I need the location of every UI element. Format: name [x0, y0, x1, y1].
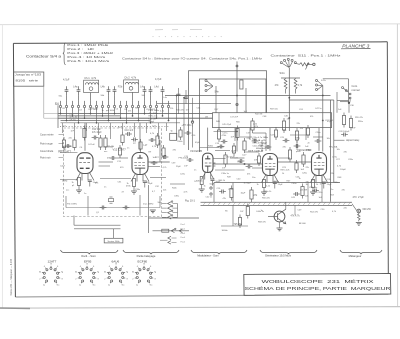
junction S4 drop 9: [108, 120, 109, 121]
capacitor C64: [184, 96, 188, 98]
terminal mod 1: [210, 187, 212, 189]
wire col extra a: [176, 114, 178, 140]
wire S4 drop 2: [66, 112, 68, 121]
resistor R76: [118, 148, 121, 155]
wire V15 column: [288, 113, 290, 131]
svg-text:R47a: R47a: [274, 181, 280, 183]
resistor R21: [83, 129, 86, 138]
bus wire 5: [61, 122, 181, 124]
svg-text:R59 10k: R59 10k: [270, 109, 279, 111]
svg-text:C28a: C28a: [348, 159, 354, 161]
resistor R51 47k: [284, 79, 287, 94]
junction S4 drop 2: [66, 120, 67, 121]
page right edge: [396, 24, 398, 307]
wire top vertical c: [215, 86, 217, 113]
capacitor C52: [293, 193, 296, 195]
svg-text:C27a: C27a: [332, 157, 338, 159]
wire mid horizontal a: [214, 131, 238, 133]
svg-text:R63a 1k: R63a 1k: [264, 191, 273, 193]
ground: [261, 191, 267, 193]
wire right inner down: [336, 92, 338, 113]
wire column drop: [62, 123, 64, 133]
svg-text:3k: 3k: [104, 271, 106, 273]
svg-text:Pos.3: Pos.3: [181, 233, 186, 235]
wire right corner down: [348, 79, 350, 104]
right vertical wire 1: [330, 100, 332, 202]
svg-text:Ch.1 4,7k: Ch.1 4,7k: [84, 76, 97, 80]
svg-text:R55a: R55a: [358, 121, 364, 123]
svg-text:Modulateur - Som: Modulateur - Som: [197, 254, 219, 258]
socket EF95 pins: [78, 266, 96, 283]
capacitor C10: [125, 133, 128, 135]
svg-text:Ch.2 4,7k: Ch.2 4,7k: [124, 75, 137, 79]
wire cap to contact: [114, 95, 116, 101]
wire loop drop a: [249, 128, 251, 140]
svg-text:600 2W: 600 2W: [363, 208, 372, 211]
S4 contact 12: [125, 105, 127, 107]
svg-text:EF95: EF95: [84, 259, 92, 263]
svg-text:patN: patN: [296, 150, 301, 153]
wire S4 drop 10: [114, 112, 116, 114]
svg-text:Pos.2: Pos.2: [181, 228, 186, 230]
wire S4 drop 18: [162, 112, 164, 116]
wire gen e: [294, 205, 296, 215]
revision box: [13, 72, 43, 86]
rotary switch S11: [280, 62, 282, 64]
wire S4 drop 14: [138, 112, 140, 121]
junction cont: [348, 102, 350, 104]
title box: [244, 274, 391, 296]
junction S4 drop 7: [96, 122, 97, 123]
capacitor C53: [312, 190, 315, 192]
svg-text:pot 100k: pot 100k: [106, 109, 115, 112]
svg-text:Cont.: Cont.: [352, 84, 358, 88]
coil Ch1: [85, 83, 98, 85]
wire column drop: [98, 123, 100, 135]
S4 contact 9: [107, 105, 109, 107]
svg-text:50µF: 50µF: [210, 184, 216, 186]
svg-text:Coax blindé: Coax blindé: [40, 150, 54, 153]
resistor R66: [358, 213, 361, 222]
secteur box: [104, 238, 123, 243]
bus dotted row: [60, 126, 170, 128]
svg-text:C47 1n: C47 1n: [315, 108, 323, 110]
vertical drop c: [307, 183, 309, 203]
capacitor C5: [114, 86, 116, 89]
wire S4 drop 6: [90, 112, 92, 114]
resistor R82: [295, 163, 298, 170]
wire left inner: [65, 196, 67, 208]
svg-text:R30 22k: R30 22k: [176, 110, 185, 112]
wire to secteur: [113, 229, 115, 239]
socket 6AU6 pin labels: [104, 264, 128, 287]
S4 contact 17: [155, 105, 157, 107]
cont-normal contacts: [349, 93, 351, 95]
brace oscillateur: [61, 250, 119, 254]
capacitor C61: [265, 146, 268, 148]
capacitor C55: [252, 140, 255, 142]
svg-text:BF 600: BF 600: [299, 223, 307, 225]
wire column drop: [166, 123, 168, 131]
junction J9: [322, 95, 323, 96]
svg-text:2: 2: [39, 279, 40, 281]
svg-text:normal: normal: [352, 88, 360, 92]
capacitor C7: [150, 86, 152, 89]
wire riser 176: [176, 96, 178, 114]
S4 contact 6: [89, 105, 91, 107]
svg-text:3k: 3k: [39, 271, 41, 273]
row low contacts: [168, 236, 171, 239]
resistor R31: [217, 130, 220, 139]
S4 contact 11: [119, 105, 121, 107]
svg-text:C52a: C52a: [318, 192, 324, 194]
resistor R35: [251, 121, 254, 130]
wire vert 219: [218, 113, 220, 130]
svg-text:C53 10n: C53 10n: [309, 187, 318, 189]
tube V16 envelope: [312, 153, 327, 176]
capacitor C2: [66, 86, 68, 89]
potentiometer P1 10k: [300, 63, 310, 66]
junction J6: [322, 120, 323, 121]
capacitor C18: [218, 146, 221, 148]
svg-text:R50 22k: R50 22k: [262, 198, 271, 200]
wire S4 drop 13: [132, 112, 134, 116]
wire col extra c: [192, 128, 194, 148]
svg-text:3k: 3k: [132, 271, 134, 273]
S4 contact 1: [59, 105, 61, 107]
row mid wire: [153, 230, 190, 232]
wire S4c right: [177, 204, 179, 218]
svg-text:4,7µF: 4,7µF: [155, 78, 162, 81]
svg-text:départ balay.: départ balay.: [346, 139, 360, 142]
wire box bottom bus: [66, 207, 160, 209]
svg-text:C20 47pF: C20 47pF: [226, 157, 236, 159]
svg-text:C17a: C17a: [223, 133, 229, 135]
resistor R52 4.7k: [294, 79, 297, 94]
svg-text:4,7k: 4,7k: [298, 84, 303, 87]
svg-text:Tr: Tr: [170, 130, 172, 133]
cathode capacitor: [211, 178, 215, 180]
wire right corner left: [337, 100, 349, 102]
svg-text:8195 série: 8195 série: [16, 78, 39, 82]
svg-text:PHa 400A: PHa 400A: [179, 157, 189, 160]
svg-text:PHa 40kA: PHa 40kA: [62, 145, 72, 148]
wire Q1 up: [285, 202, 287, 209]
junction S4 drop 8: [102, 115, 103, 116]
S4 contact 5: [83, 105, 85, 107]
resistor R75: [257, 156, 260, 163]
bus wire 4: [61, 120, 151, 122]
svg-text:Point noir: Point noir: [40, 157, 51, 160]
capacitor C63: [177, 93, 181, 95]
cathode resistor: [263, 180, 266, 188]
svg-text:4: 4: [137, 266, 138, 268]
capacitor C3: [78, 86, 80, 89]
junction riser b: [183, 97, 184, 98]
wire mid horizontal f: [265, 133, 267, 151]
capacitor C25: [283, 140, 286, 142]
wire mod horiz: [221, 225, 248, 227]
svg-text:7g: 7g: [61, 271, 63, 273]
svg-text:C33a: C33a: [135, 189, 141, 191]
junction S4 drop 19: [168, 120, 169, 121]
svg-text:8: 8: [62, 279, 63, 281]
S4 contact 3: [71, 105, 73, 107]
junction S4 drop 18: [162, 115, 163, 116]
svg-text:9cc: 9cc: [93, 284, 96, 286]
wire top right horiz: [289, 99, 334, 101]
svg-text:R38a: R38a: [295, 138, 301, 140]
ground left: [150, 209, 156, 211]
wire S4 drop 11: [120, 112, 122, 118]
capacitor C60: [221, 141, 224, 143]
wire top right node: [323, 78, 349, 80]
wire extra h: [60, 152, 78, 154]
svg-text:50µF: 50µF: [327, 184, 333, 186]
svg-text:L4d: L4d: [154, 85, 159, 88]
resistor R77: [62, 140, 65, 148]
wire V11 gnd drop: [87, 196, 89, 216]
svg-text:Point rouge: Point rouge: [40, 143, 53, 146]
svg-text:осc: осc: [66, 190, 69, 192]
wire cap to contact: [108, 95, 110, 101]
svg-text:C17 2nF: C17 2nF: [230, 117, 239, 119]
svg-text:C27 1nF: C27 1nF: [325, 120, 334, 122]
page top edge: [0, 23, 400, 26]
resistor R63: [230, 189, 233, 198]
capacitor C6: [144, 86, 146, 89]
wire S4 drop 5: [84, 112, 86, 118]
wire top horizontal b: [157, 103, 231, 105]
svg-text:4: 4: [80, 266, 81, 268]
svg-text:L4a: L4a: [73, 85, 78, 88]
svg-text:R41a: R41a: [238, 162, 244, 164]
wire cathode: [201, 185, 203, 189]
coax hatches: [203, 203, 350, 206]
drawing frame bottom: [15, 294, 388, 297]
svg-text:R58 47k: R58 47k: [258, 222, 267, 224]
wire cont down: [349, 99, 351, 102]
row mid rect: [162, 229, 169, 232]
wire S11 down: [288, 68, 290, 113]
svg-text:10µF: 10µF: [231, 151, 237, 153]
wire extra d: [245, 151, 260, 153]
wire right inner: [159, 196, 161, 208]
svg-text:4MHz étal.: 4MHz étal.: [256, 147, 266, 150]
wire mid horizontal d: [230, 157, 245, 159]
socket 12AT7 pins: [42, 266, 60, 283]
svg-text:470 27µF: 470 27µF: [353, 196, 365, 199]
page left edge: [1, 25, 3, 308]
wire node S11 bus: [281, 77, 300, 79]
switch S4c contacts: [168, 202, 172, 206]
capacitor C22: [246, 166, 249, 168]
svg-text:C14 1nF: C14 1nF: [92, 129, 101, 131]
wire under tubes b: [100, 178, 131, 180]
svg-text:C22a 10µF ±: C22a 10µF ±: [253, 145, 266, 147]
svg-text:S4c: S4c: [142, 95, 146, 97]
svg-text:R44c: R44c: [172, 188, 177, 190]
S4 contact 10: [113, 105, 115, 107]
resistor R81: [306, 128, 309, 135]
svg-text:Coax entrée: Coax entrée: [40, 133, 54, 136]
bottom wire riser: [73, 216, 75, 226]
terminal T1: [313, 63, 315, 65]
wire under tubes a: [60, 179, 77, 181]
wire anode riser: [207, 128, 209, 151]
brace modulateur: [191, 250, 247, 254]
wire S4 drop 7: [96, 112, 98, 123]
svg-text:6: 6: [150, 266, 151, 268]
svg-text:6: 6: [57, 266, 58, 268]
wire loop lower: [213, 113, 332, 128]
svg-text:Fig. 10-1: Fig. 10-1: [185, 200, 195, 203]
drawing frame right: [387, 42, 388, 294]
wire S4 drop 16: [150, 112, 152, 123]
svg-text:9cc: 9cc: [150, 284, 153, 286]
svg-text:R45 1k: R45 1k: [196, 181, 204, 183]
grid cap C38: [162, 156, 165, 158]
terminal T2: [236, 103, 238, 105]
capacitor C11: [131, 139, 134, 141]
svg-text:Contacteur S/4 a: Contacteur S/4 a: [26, 54, 61, 58]
transistor Q1: [274, 211, 285, 222]
svg-text:C44a 1n: C44a 1n: [256, 211, 265, 213]
junction S4 drop 10: [114, 113, 115, 114]
pencil marks: [155, 29, 163, 31]
svg-text:SCHÉMA DE PRINCIPE, PARTIE MA: SCHÉMA DE PRINCIPE, PARTIE MARQUEUR: [245, 285, 392, 291]
wire top vertical d: [245, 88, 247, 113]
wire extra e: [214, 158, 226, 160]
S4 contact 2: [65, 105, 67, 107]
svg-text:osc.: osc.: [104, 151, 108, 153]
wire riser 184: [183, 98, 185, 116]
svg-text:47pF: 47pF: [195, 142, 200, 144]
socket 6AU6 pins: [107, 266, 125, 283]
wire mid right e: [313, 136, 323, 138]
svg-text:22k 2W: 22k 2W: [300, 190, 307, 192]
wire cathode: [78, 186, 80, 190]
wire S4 drop 1: [60, 112, 62, 114]
wire stub depart: [334, 139, 345, 141]
S4 contact 16: [149, 105, 151, 107]
shield box dashed: [64, 128, 162, 217]
capacitor C56: [294, 145, 297, 147]
bottom wire 1: [74, 224, 121, 226]
svg-text:C40a: C40a: [292, 183, 298, 185]
svg-text:12AT7: 12AT7: [48, 259, 57, 263]
svg-text:C10 1nF: C10 1nF: [125, 130, 134, 132]
svg-text:Contacteur S4 b : Sélecteur po: Contacteur S4 b : Sélecteur pour l’O cur…: [122, 57, 263, 61]
svg-text:S4e: S4e: [215, 91, 220, 94]
svg-text:Pos.5 : 10+1 Mc/s: Pos.5 : 10+1 Mc/s: [67, 59, 110, 63]
svg-text:C47a: C47a: [180, 174, 186, 176]
capacitor C34: [123, 207, 126, 209]
svg-text:R28a 10k: R28a 10k: [149, 116, 159, 118]
wire cap to contact: [78, 95, 80, 101]
terminal HT: [191, 121, 193, 123]
ground: [131, 190, 137, 192]
page bottom edge: [0, 307, 400, 309]
svg-text:1nF: 1nF: [184, 166, 188, 168]
svg-text:9cc: 9cc: [57, 284, 60, 286]
page bottom corner shadow: [0, 307, 30, 309]
wire sortie: [352, 204, 357, 211]
svg-text:1MHz: 1MHz: [62, 181, 67, 183]
transformer Tr1 box: [170, 133, 177, 140]
svg-text:R37a 22k: R37a 22k: [281, 170, 291, 172]
junction S4 drop 11: [120, 118, 121, 119]
svg-text:S.Pa: S.Pa: [321, 80, 327, 82]
vertical drop a: [213, 183, 215, 203]
wire mid right a: [215, 150, 230, 152]
svg-text:C4a7: C4a7: [60, 166, 66, 168]
brace generateur: [260, 250, 317, 254]
svg-text:1k 50µF: 1k 50µF: [244, 183, 252, 185]
cathode capacitor: [322, 181, 326, 183]
wire under tubes c: [150, 177, 166, 179]
ground: [76, 189, 82, 191]
junction J4: [236, 131, 237, 132]
socket ECF80 pin labels: [132, 264, 156, 287]
wire mid horizontal b: [200, 147, 220, 149]
cathode capacitor: [143, 180, 147, 182]
svg-text:± régl.: ± régl.: [149, 120, 155, 123]
svg-text:R46 1k: R46 1k: [219, 180, 227, 182]
wire loop drop b: [305, 128, 307, 140]
wire coil to contact: [90, 93, 92, 101]
svg-text:2: 2: [75, 279, 76, 281]
wire mid horizontal c: [290, 134, 310, 136]
wire loop upper outer: [189, 71, 267, 150]
svg-text:7g: 7g: [97, 271, 99, 273]
wire cathode: [263, 188, 265, 192]
resistor R62: [250, 190, 253, 199]
wire mid right d: [296, 140, 298, 150]
wire coil to contact: [132, 93, 134, 101]
wire column drop: [74, 123, 76, 137]
capacitor C21: [238, 160, 241, 162]
junction S4 drop 4: [78, 122, 79, 123]
wire S4 drop 8: [102, 112, 104, 116]
junction J3: [244, 163, 245, 164]
coax run upper: [201, 201, 353, 203]
cathode capacitor: [88, 179, 92, 181]
wire col extra b: [183, 116, 185, 145]
svg-text:47k 25k: 47k 25k: [217, 147, 225, 149]
capacitor C35: [65, 145, 68, 147]
wire column drop: [110, 123, 112, 139]
ground: [310, 191, 316, 193]
wire V16 column: [322, 113, 324, 152]
cathode resistor: [133, 179, 136, 187]
svg-text:Générateur 19,5 Mc/s: Générateur 19,5 Mc/s: [265, 254, 292, 258]
wire pot to terminal: [308, 63, 313, 65]
wire top horizontal a: [165, 95, 331, 97]
wire anode riser: [84, 123, 86, 151]
coil Ch2: [125, 82, 138, 84]
svg-text:22pF: 22pF: [176, 166, 181, 168]
svg-text:V13 EF95: V13 EF95: [190, 149, 202, 153]
svg-text:R2 pot: R2 pot: [92, 107, 99, 110]
junction S4 drop 5: [84, 118, 85, 119]
svg-text:4,7µF: 4,7µF: [63, 79, 70, 82]
svg-text:2: 2: [132, 279, 133, 281]
wire mid horizontal e: [253, 132, 267, 134]
junction S4 drop 1: [60, 113, 61, 114]
wire V12 gnd drop: [139, 195, 141, 216]
resistor R80: [274, 130, 277, 137]
